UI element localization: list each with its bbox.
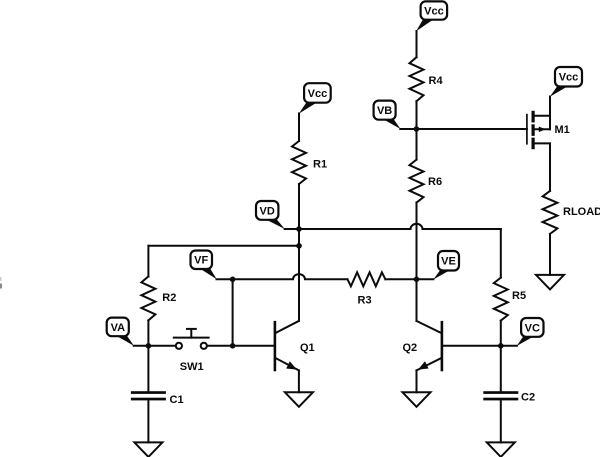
svg-text:R2: R2 xyxy=(162,292,176,304)
svg-text:M1: M1 xyxy=(555,124,570,136)
svg-text:R6: R6 xyxy=(428,176,442,188)
svg-text:Vcc: Vcc xyxy=(424,6,444,18)
svg-text:Q2: Q2 xyxy=(403,342,418,354)
svg-text:Q1: Q1 xyxy=(300,342,315,354)
svg-text:VE: VE xyxy=(441,256,456,268)
svg-text:Vcc: Vcc xyxy=(559,72,579,84)
svg-text:R3: R3 xyxy=(358,295,372,307)
svg-text:VA: VA xyxy=(111,322,126,334)
svg-text:VC: VC xyxy=(525,322,540,334)
svg-text:RLOAD: RLOAD xyxy=(563,206,600,218)
svg-text:SW1: SW1 xyxy=(180,361,204,373)
svg-text:C1: C1 xyxy=(170,394,184,406)
svg-text:VB: VB xyxy=(377,105,392,117)
svg-text:R5: R5 xyxy=(512,290,526,302)
svg-text:Vcc: Vcc xyxy=(308,88,328,100)
svg-text:R4: R4 xyxy=(429,75,444,87)
svg-text:VF: VF xyxy=(194,255,208,267)
svg-text:C2: C2 xyxy=(521,392,535,404)
svg-text:R1: R1 xyxy=(313,159,327,171)
svg-text:VD: VD xyxy=(260,205,275,217)
